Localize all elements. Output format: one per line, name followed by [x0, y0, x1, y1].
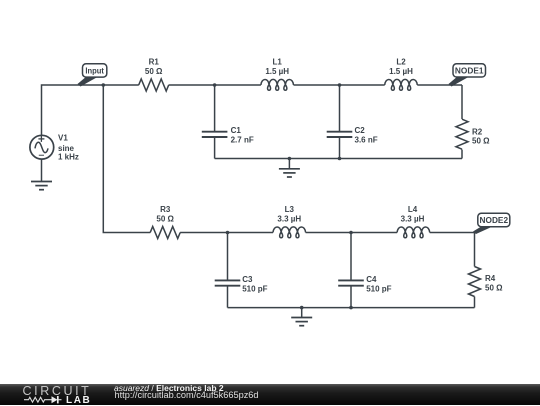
svg-text:50 Ω: 50 Ω [145, 67, 163, 76]
svg-text:1.5 µH: 1.5 µH [389, 67, 413, 76]
svg-text:L1: L1 [273, 58, 283, 67]
svg-text:R4: R4 [485, 274, 496, 283]
svg-text:NODE1: NODE1 [455, 67, 484, 76]
svg-text:2.7 nF: 2.7 nF [231, 136, 254, 145]
svg-text:sine: sine [58, 144, 75, 153]
svg-text:C4: C4 [366, 275, 377, 284]
svg-text:510 pF: 510 pF [242, 285, 267, 294]
svg-text:1.5 µH: 1.5 µH [265, 67, 289, 76]
svg-text:C3: C3 [242, 275, 253, 284]
svg-text:3.3 µH: 3.3 µH [277, 215, 301, 224]
svg-text:C2: C2 [355, 126, 366, 135]
svg-text:L3: L3 [285, 205, 295, 214]
svg-text:Input: Input [85, 67, 104, 76]
svg-text:1 kHz: 1 kHz [58, 153, 79, 162]
svg-text:C1: C1 [231, 126, 242, 135]
svg-text:50 Ω: 50 Ω [156, 215, 174, 224]
svg-text:R2: R2 [472, 127, 483, 136]
svg-text:R1: R1 [149, 58, 160, 67]
svg-text:3.6 nF: 3.6 nF [355, 136, 378, 145]
svg-text:R3: R3 [160, 205, 171, 214]
svg-text:V1: V1 [58, 134, 68, 143]
svg-text:L4: L4 [408, 205, 418, 214]
svg-text:3.3 µH: 3.3 µH [401, 215, 425, 224]
svg-text:50 Ω: 50 Ω [485, 284, 503, 293]
svg-text:NODE2: NODE2 [480, 216, 509, 225]
svg-text:510 pF: 510 pF [366, 285, 391, 294]
svg-text:50 Ω: 50 Ω [472, 137, 490, 146]
svg-text:L2: L2 [396, 58, 406, 67]
